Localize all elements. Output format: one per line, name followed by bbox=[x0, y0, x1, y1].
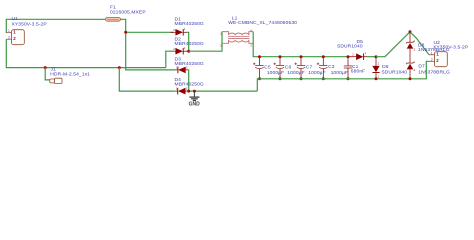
wire U1 pin2 AC2 run bbox=[6, 39, 166, 67]
svg-text:680nF: 680nF bbox=[351, 69, 365, 75]
wire U1 pin1 to fuse F1 bbox=[6, 19, 105, 32]
junction D3/D4 bbox=[187, 90, 190, 93]
core bbox=[228, 36, 249, 38]
wire diagonal D6 node to D8 node bbox=[376, 32, 410, 57]
ground bbox=[189, 91, 201, 108]
diode D1 MBR40250G bbox=[171, 17, 204, 36]
wire fuse to AC1 vertical and D3 cathode bbox=[121, 19, 176, 70]
capacitor C5 1000uF bbox=[253, 57, 284, 79]
bottom winding bbox=[222, 40, 253, 43]
svg-text:GND: GND bbox=[189, 102, 201, 108]
svg-text:XY350V-3.5-2P: XY350V-3.5-2P bbox=[433, 44, 468, 50]
svg-text:1000µF: 1000µF bbox=[267, 70, 284, 76]
wire choke right to top rail bbox=[253, 32, 348, 57]
svg-text:MBR40250G: MBR40250G bbox=[175, 82, 204, 88]
connector U2 bbox=[429, 40, 468, 67]
svg-text:2: 2 bbox=[431, 58, 433, 62]
junction D8 top bbox=[409, 30, 412, 33]
diode D2 MBR40250G bbox=[171, 37, 204, 55]
wire J1 drop bbox=[45, 68, 50, 80]
svg-text:1000µF: 1000µF bbox=[331, 70, 348, 76]
svg-text:C7: C7 bbox=[306, 64, 313, 70]
svg-text:1000µF: 1000µF bbox=[287, 70, 304, 76]
wire D3 anode down bbox=[187, 70, 190, 91]
svg-text:1: 1 bbox=[8, 29, 10, 33]
zener D8 1N5378BRLG bbox=[406, 32, 450, 63]
svg-text:D7: D7 bbox=[418, 63, 425, 69]
svg-text:C3: C3 bbox=[328, 64, 335, 70]
junction AC1/D1 bbox=[124, 31, 127, 34]
wire junction to choke left bbox=[189, 32, 222, 52]
wire D5 cathode to D6 node bbox=[367, 56, 377, 58]
connector U1 bbox=[6, 16, 46, 45]
wire D4 anode to GND rail bbox=[188, 90, 257, 92]
diode D4 MBR40250G bbox=[175, 77, 204, 94]
junction D7 bottom bbox=[409, 77, 412, 80]
junction D1/D2 cathodes bbox=[187, 50, 190, 53]
svg-text:C6: C6 bbox=[285, 64, 292, 70]
wire AC1 to D1 anode bbox=[126, 31, 173, 33]
wire AC2 down to D4 bbox=[119, 68, 175, 92]
fuse F1 0216005.MXEP bbox=[106, 4, 146, 21]
svg-text:0216005.MXEP: 0216005.MXEP bbox=[110, 10, 146, 16]
wire bottom rail caps to U2 pin2 bbox=[257, 61, 429, 91]
zener D7 1N5378BRLG bbox=[406, 60, 450, 79]
svg-text:MBR40250G: MBR40250G bbox=[175, 21, 204, 27]
junction GND tap bbox=[193, 90, 196, 93]
svg-text:HDR-M-2.54_1x1: HDR-M-2.54_1x1 bbox=[50, 71, 90, 77]
diode D5 SDUR1040 bbox=[337, 39, 367, 60]
capacitor C7 1000uF bbox=[295, 57, 326, 79]
junction AC2/J1 bbox=[44, 66, 47, 69]
capacitor C6 1000uF bbox=[274, 57, 305, 79]
svg-text:2: 2 bbox=[8, 36, 10, 40]
wire D1 cathode down bbox=[187, 32, 189, 51]
connector J1 HDR-M-2.54_1x1 bbox=[50, 67, 90, 84]
junction D6 bottom bbox=[375, 77, 378, 80]
svg-text:1N5378BRLG: 1N5378BRLG bbox=[418, 69, 450, 75]
diode D6 SDUR1040 bbox=[372, 57, 407, 79]
junction D6 top bbox=[375, 55, 378, 58]
wire D2 anode from AC2 bbox=[166, 51, 173, 67]
svg-text:MBR40250G: MBR40250G bbox=[175, 61, 204, 67]
svg-text:1: 1 bbox=[431, 51, 433, 55]
wire diagonal D8 node to U2 pin1 bbox=[410, 32, 429, 55]
svg-text:SDUR1040: SDUR1040 bbox=[337, 43, 363, 49]
diode D3 MBR40250G bbox=[175, 57, 204, 74]
svg-text:D6: D6 bbox=[382, 64, 389, 70]
svg-text:F1: F1 bbox=[110, 4, 116, 10]
svg-text:U1: U1 bbox=[12, 16, 19, 22]
wire D2 cathode to junction bbox=[187, 50, 189, 52]
capacitor C3 1000uF bbox=[317, 57, 348, 79]
svg-text:WE-CMBNC_XL_7448050530: WE-CMBNC_XL_7448050530 bbox=[228, 20, 297, 26]
top winding bbox=[222, 32, 253, 36]
svg-text:XY350V-3.5-2P: XY350V-3.5-2P bbox=[12, 22, 47, 28]
svg-text:C5: C5 bbox=[264, 64, 271, 70]
junction AC2/D4 bbox=[118, 66, 121, 69]
svg-text:MBR40250G: MBR40250G bbox=[175, 41, 204, 47]
svg-text:SDUR1040: SDUR1040 bbox=[381, 70, 407, 76]
capacitor C1 680nF bbox=[344, 57, 365, 79]
inductor L1 WE-CMBNC_XL_7448050530 bbox=[220, 16, 297, 48]
